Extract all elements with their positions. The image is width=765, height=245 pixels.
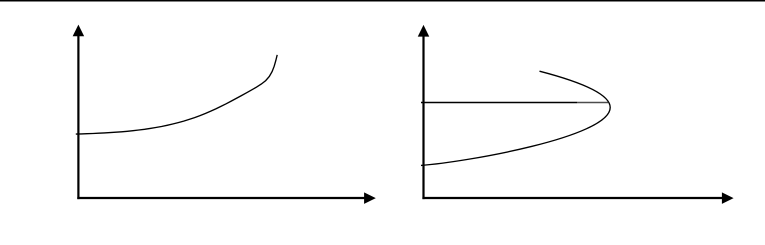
left graph y-axis arrowhead bbox=[73, 25, 85, 37]
right graph horizontal level line (gray part to curve) bbox=[577, 102, 608, 104]
right graph y-axis arrowhead bbox=[418, 25, 430, 37]
left graph x-axis shaft bbox=[77, 197, 365, 199]
left graph y-axis shaft bbox=[77, 35, 79, 200]
right graph fold curve (upper branch to nose to lower branch) bbox=[421, 71, 610, 165]
right graph horizontal level line (black part) bbox=[421, 102, 577, 104]
right graph y-axis shaft bbox=[422, 35, 424, 199]
left graph x-axis arrowhead bbox=[364, 192, 376, 204]
right graph x-axis arrowhead bbox=[722, 192, 734, 204]
right graph x-axis shaft bbox=[422, 197, 723, 199]
top horizontal rule bbox=[0, 0, 765, 2]
left graph exponential curve bbox=[76, 55, 277, 134]
